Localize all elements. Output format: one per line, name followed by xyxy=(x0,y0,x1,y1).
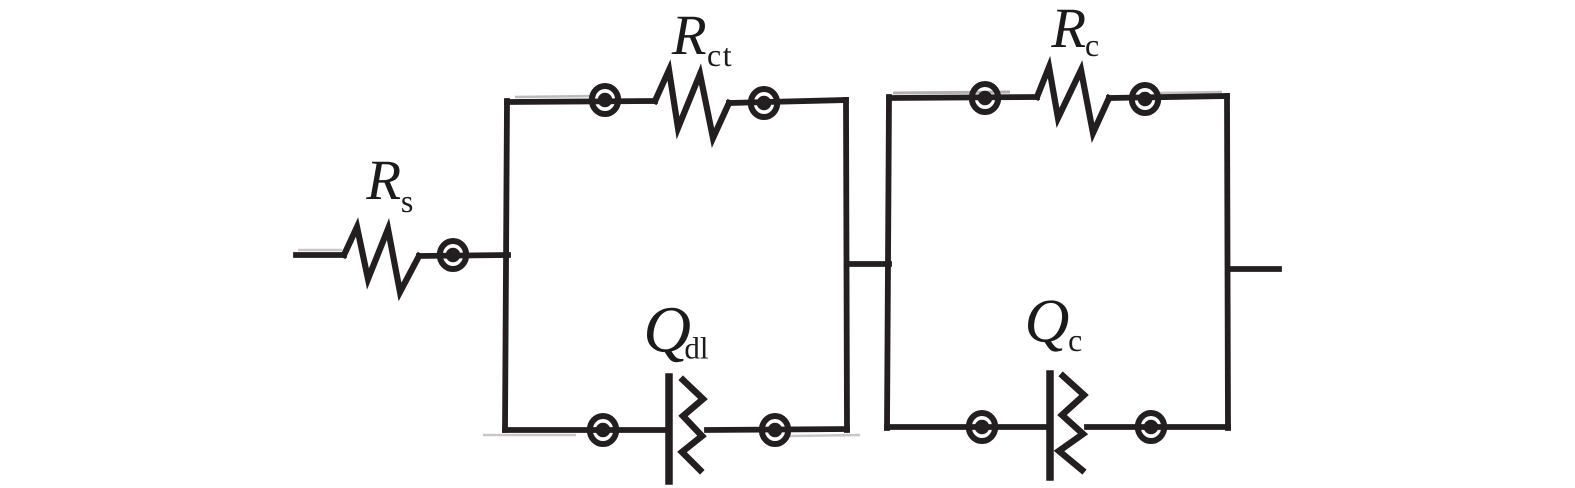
wire sketch shadow right of box1 bottom corner xyxy=(790,435,860,436)
wire box2 bottom side left (through node B2a) xyxy=(887,424,1046,430)
wire box2 top side left (through node T2a) xyxy=(889,97,1037,98)
wire Rs through node A to box1 xyxy=(419,255,508,256)
wire sketch shadow above input lead xyxy=(298,249,342,252)
capacitor-bar of CPE Qdl xyxy=(665,377,673,481)
node B2a terminal xyxy=(969,413,995,441)
wire output lead xyxy=(1228,266,1279,272)
node B1a terminal xyxy=(590,416,616,444)
node B2b terminal xyxy=(1138,413,1164,441)
wire box1 bottom side right (through node B1b) xyxy=(707,429,847,430)
capacitor-bar of CPE Qc xyxy=(1046,374,1054,477)
wire box2 right vertical xyxy=(1227,96,1228,428)
node T1a terminal xyxy=(592,86,618,114)
label Qdl xyxy=(647,308,708,362)
wire sketch shadow above box1 top-left xyxy=(515,96,596,97)
node A terminal after Rs xyxy=(440,241,466,269)
wire sketch shadow above box2 top xyxy=(893,92,1010,93)
zigzag of CPE Qc xyxy=(1059,376,1084,470)
wire box1 left vertical xyxy=(505,101,507,430)
label Rc xyxy=(1051,10,1098,57)
node T1b terminal xyxy=(751,89,777,117)
wire box2 top side right (through node T2b) xyxy=(1109,96,1227,98)
label Rct xyxy=(672,17,732,67)
node T2b terminal xyxy=(1132,85,1158,113)
resistor R1 Rs xyxy=(344,227,419,292)
node B1b terminal xyxy=(762,416,788,444)
label Rs xyxy=(366,162,412,213)
wire box1 top side right (through node T1b) xyxy=(729,100,846,103)
wire input lead xyxy=(296,252,344,258)
label Qc xyxy=(1028,300,1081,351)
wire sketch shadow below box1 bottom-left xyxy=(483,434,576,437)
node T2a terminal xyxy=(972,84,998,112)
wire box2 left vertical xyxy=(887,97,889,428)
wire middle link between boxes xyxy=(847,261,889,267)
resistor R2 Rct xyxy=(655,70,729,138)
wire box1 bottom side left (through node B1a) xyxy=(505,427,665,433)
wire sketch shadow above box2 top right xyxy=(1160,92,1222,93)
wire box1 top side left (through node T1a) xyxy=(507,101,655,102)
wire box2 bottom side right (through node B2b) xyxy=(1087,424,1228,430)
resistor R3 Rc xyxy=(1037,67,1109,133)
zigzag of CPE Qdl xyxy=(682,380,703,470)
wire box1 right vertical xyxy=(846,100,847,430)
